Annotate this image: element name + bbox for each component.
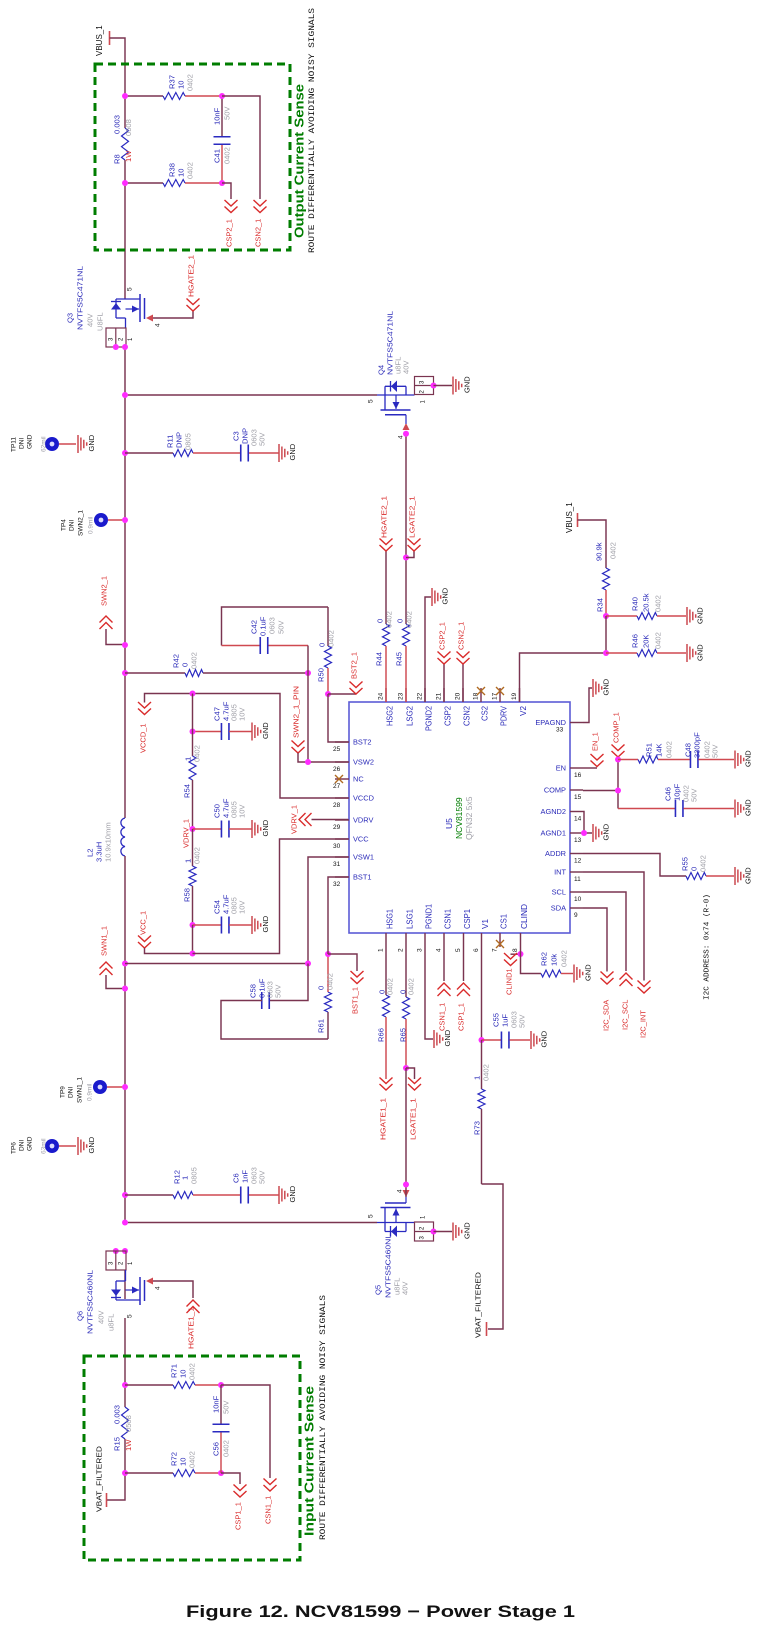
wire V1 [481,947,483,1040]
svg-text:R65: R65 [399,1028,408,1042]
svg-text:Q6: Q6 [76,1311,85,1321]
resistor R61 [317,954,335,1039]
svg-text:4: 4 [154,323,161,327]
svg-text:R66: R66 [377,1028,386,1042]
svg-text:R46: R46 [631,634,640,648]
net CSN1_1 (input) [221,1385,277,1524]
node [218,1382,224,1388]
wire [249,452,279,454]
svg-text:DNI: DNI [68,520,75,531]
svg-text:I2C_SDA: I2C_SDA [602,1000,611,1031]
wire SWN1 [125,963,308,965]
ground [279,1185,297,1204]
ground [252,915,270,934]
ground [453,1222,472,1241]
svg-text:C46: C46 [664,787,673,801]
svg-text:19: 19 [511,692,518,700]
wire VCC pin [193,839,350,954]
svg-text:SWN2_1: SWN2_1 [77,510,84,536]
svg-text:C56: C56 [212,1442,221,1456]
net I2C_SCL [583,892,633,1030]
node VBUS_1 (top) [95,25,110,56]
svg-text:29: 29 [333,824,341,831]
svg-text:0: 0 [317,986,326,990]
pin 13 AGND1 [541,829,583,845]
svg-text:Q5: Q5 [374,1285,383,1295]
pin 1 HSG1 [377,909,394,952]
ground [593,823,611,842]
testpoint TP6 [10,1136,76,1154]
svg-text:I2C_INT: I2C_INT [639,1010,648,1038]
net CSP2_1 [222,183,238,247]
svg-text:R51: R51 [645,743,654,757]
transistor Q5 [367,1189,414,1298]
node [122,344,128,350]
svg-text:ADDR: ADDR [545,849,566,858]
pin 6 V1 [473,919,490,952]
ground [687,607,705,625]
svg-text:VCC: VCC [353,835,369,844]
svg-text:INT: INT [554,868,566,877]
node [113,1248,119,1254]
svg-text:CSN1_1: CSN1_1 [438,1003,447,1031]
node [190,691,196,697]
node [603,613,609,619]
svg-text:TP11: TP11 [10,437,17,452]
svg-text:9: 9 [574,912,578,919]
ic U5 body [349,702,570,933]
node [122,961,128,967]
wire ADDR [583,854,686,877]
svg-text:C55: C55 [492,1013,501,1027]
svg-text:VCC_1: VCC_1 [139,911,148,935]
ground [735,750,753,769]
wire [125,452,173,454]
svg-text:CSP1_1: CSP1_1 [234,1502,243,1530]
svg-text:31: 31 [333,861,341,868]
pin 3 PGND1 [416,904,433,952]
svg-text:SWN1_1: SWN1_1 [100,926,109,956]
caption [186,1602,575,1621]
svg-text:I2C_SCL: I2C_SCL [621,1000,630,1030]
pin 20 CSN2 [454,688,471,726]
svg-text:R55: R55 [681,857,690,871]
net LGATE1_1 [406,1068,421,1140]
svg-text:3: 3 [109,1261,115,1265]
node [431,1229,437,1235]
svg-text:16: 16 [574,772,582,779]
svg-text:R45: R45 [395,652,404,666]
net CSN2_1 [222,96,267,247]
resistor R42 [172,652,203,676]
svg-text:25: 25 [333,746,341,753]
ground [574,964,593,983]
pin box Q5 [415,1215,434,1241]
svg-text:10: 10 [179,1370,188,1378]
node [431,383,437,389]
svg-text:10nF: 10nF [213,107,222,125]
svg-text:0402: 0402 [188,1363,197,1380]
net VCC_1 [138,911,193,954]
node [603,650,609,656]
wire [434,385,453,387]
svg-text:90.9k: 90.9k [595,542,604,561]
svg-text:HSG1: HSG1 [386,909,395,929]
svg-text:5: 5 [367,1214,374,1218]
svg-text:0508: 0508 [124,119,133,136]
svg-text:50V: 50V [518,1014,527,1028]
testpoint TP11 [10,434,76,452]
ground [593,678,611,697]
pin 15 COMP [544,786,583,802]
node [403,431,409,437]
svg-text:CSN2_1: CSN2_1 [254,219,263,247]
svg-text:EN: EN [556,764,566,773]
svg-text:PGND1: PGND1 [425,904,434,929]
wire [578,520,607,568]
svg-text:0402: 0402 [186,162,195,179]
svg-text:50V: 50V [690,788,699,802]
svg-text:R37: R37 [168,75,177,89]
svg-text:R40: R40 [631,597,640,611]
ground [279,443,297,462]
wire PGND1 [425,947,433,1039]
svg-text:I2C ADDRESS: 0x74 (R-0): I2C ADDRESS: 0x74 (R-0) [704,894,712,1000]
svg-text:1: 1 [421,400,427,404]
ground [687,644,705,662]
svg-text:1: 1 [184,757,193,761]
node [615,757,621,763]
svg-text:CSP2_1: CSP2_1 [438,622,447,650]
pin 16 EN [556,764,583,780]
net SWN2_1 [100,576,126,645]
net CSN2_1 (pin) [457,622,470,702]
resistor R51 [618,741,691,763]
node [615,788,621,794]
svg-text:1: 1 [181,1176,190,1180]
inductor L2 [86,818,125,862]
resistor R71 [170,1363,197,1388]
net CSP1_1 (pin) [457,947,470,1031]
pin box Q6 [106,1251,134,1270]
wire [124,1270,126,1299]
net I2C_INT [583,872,651,1038]
resistor R11 [166,432,193,457]
wire COMP [583,757,618,809]
no-connect X CS1 [496,940,504,948]
node [122,1220,128,1226]
svg-text:8: 8 [512,948,519,952]
svg-text:R54: R54 [183,784,192,798]
svg-text:0: 0 [396,619,405,623]
svg-text:0: 0 [690,867,699,871]
pin 32 BST1 [333,873,371,889]
wire [193,694,350,799]
resistor R37 [163,74,195,99]
resistor R66 [377,947,395,1079]
resistor R73 [473,1040,491,1184]
svg-text:NVTFS5C460NL: NVTFS5C460NL [86,1270,95,1334]
pin 21 CSP2 [435,688,452,726]
wire [125,1472,221,1474]
svg-text:DNI: DNI [18,1140,25,1151]
capacitor C3 [232,428,267,462]
svg-text:R50: R50 [317,668,326,682]
ground [735,867,753,885]
pin 12 ADDR [545,849,583,865]
wire [193,452,240,454]
wire [124,856,126,1223]
svg-text:0402: 0402 [654,632,663,649]
svg-text:SWN2_1: SWN2_1 [100,576,109,606]
svg-text:VBAT_FILTERED: VBAT_FILTERED [474,1271,483,1338]
svg-text:10: 10 [177,81,186,89]
svg-text:VSW1: VSW1 [353,853,374,862]
svg-text:TP6: TP6 [10,1142,17,1154]
svg-text:COMP: COMP [544,786,566,795]
svg-text:CSN1_1: CSN1_1 [264,1496,273,1524]
ground [531,1030,549,1049]
svg-text:0402: 0402 [482,1064,491,1081]
label Output Current Sense [293,84,307,238]
ground [252,819,270,838]
net I2C_SDA [583,908,614,1031]
svg-text:ROUTE DIFFERENTIALLY AVOIDING: ROUTE DIFFERENTIALLY AVOIDING NOISY SIGN… [308,8,317,253]
svg-text:27: 27 [333,783,341,790]
net CSP2_1 (pin) [438,622,451,702]
net COMP_1 [612,712,625,757]
svg-text:0402: 0402 [560,950,569,967]
node [518,951,524,957]
wire [434,1231,453,1233]
pin 27 NC [333,775,364,791]
svg-text:SWN1_1: SWN1_1 [76,1077,83,1103]
node [479,1037,485,1043]
pin box Q3 [106,328,134,347]
wire EPAGND [583,688,592,723]
capacitor C56 [212,1385,231,1473]
capacitor C41 [213,96,232,183]
svg-text:R72: R72 [170,1452,179,1466]
svg-text:20K: 20K [642,634,651,648]
ground [78,434,96,453]
svg-text:R62: R62 [540,952,549,966]
svg-text:0402: 0402 [223,147,232,164]
svg-text:0402: 0402 [699,855,708,872]
pin 25 BST2 [333,738,371,754]
node [581,830,587,836]
capacitor C55 [482,1011,531,1048]
svg-text:0402: 0402 [385,611,394,628]
svg-text:GND: GND [584,964,593,981]
svg-text:VCCD_1: VCCD_1 [139,723,148,753]
svg-text:CSN2: CSN2 [463,706,472,726]
svg-text:V1: V1 [481,919,490,929]
pin 22 PGND2 [416,688,433,731]
svg-text:LGATE2_1: LGATE2_1 [408,496,417,538]
wire [192,925,194,954]
svg-text:0402: 0402 [665,741,674,758]
svg-text:HGATE2_1: HGATE2_1 [187,255,196,297]
no-connect X CS2 [477,687,485,695]
svg-text:4: 4 [397,435,404,439]
svg-text:NVTFS5C460NL: NVTFS5C460NL [384,1234,393,1298]
svg-text:33: 33 [556,727,564,734]
wire [307,673,309,762]
svg-text:24: 24 [377,692,384,700]
capacitor C42 [222,607,329,654]
pin 10 SCL [552,888,583,904]
svg-text:0402: 0402 [609,542,618,559]
node [219,93,225,99]
pin 7 CS1 [491,914,508,952]
svg-text:C41: C41 [213,149,222,163]
svg-text:CSP2: CSP2 [444,706,453,726]
svg-text:R61: R61 [317,1019,326,1033]
svg-text:C47: C47 [213,707,222,721]
capacitor C54 [193,894,253,933]
svg-text:COMP_1: COMP_1 [612,712,621,743]
svg-text:0402: 0402 [405,611,414,628]
pin 31 VSW1 [333,853,374,869]
svg-text:R44: R44 [375,652,384,666]
wire [125,95,222,97]
svg-text:2: 2 [119,1261,125,1265]
svg-text:40V: 40V [402,360,411,374]
pin 28 VCCD [333,794,374,810]
svg-text:ROUTE DIFFERENTIALLY AVOIDING: ROUTE DIFFERENTIALLY AVOIDING NOISY SIGN… [319,1295,328,1540]
svg-text:0.9mil: 0.9mil [87,516,94,534]
svg-text:4: 4 [396,1189,403,1193]
wire Q4 gate [405,434,407,558]
svg-text:0805: 0805 [184,433,193,450]
svg-text:0402: 0402 [188,1451,197,1468]
svg-text:U5: U5 [444,818,454,829]
svg-text:0402: 0402 [327,630,336,647]
svg-text:u8FL: u8FL [107,1314,116,1331]
svg-text:GND: GND [441,587,450,604]
svg-text:BST2_1: BST2_1 [350,652,359,679]
no-connect X PDRV [496,687,504,695]
svg-text:R71: R71 [170,1364,179,1378]
svg-text:HGATE2_1: HGATE2_1 [380,496,389,538]
svg-text:R38: R38 [168,163,177,177]
svg-text:10: 10 [179,1458,188,1466]
node [325,691,331,697]
node VBAT_FILTERED (bottom left) [95,1445,107,1512]
wire VSW1 pin [308,857,349,964]
svg-text:SWN2_1_PIN: SWN2_1_PIN [292,686,301,738]
pin 8 CLIND [512,904,529,952]
svg-text:21: 21 [435,692,442,700]
svg-text:Input Current Sense: Input Current Sense [303,1386,317,1536]
svg-text:DNP: DNP [241,428,250,444]
svg-text:VCCD: VCCD [353,794,374,803]
svg-text:14: 14 [574,816,582,823]
net HGATE2_1 (to HSG2) [380,496,393,551]
resistor R62 [521,947,574,977]
node [122,1192,128,1198]
net VCCD_1 [138,694,193,754]
pin 24 HSG2 [377,688,394,726]
capacitor C58 [221,964,328,1040]
svg-text:50V: 50V [274,984,283,998]
node [190,729,196,735]
svg-text:GND: GND [87,1136,96,1153]
svg-text:62mil: 62mil [40,436,47,452]
svg-text:R15: R15 [113,1437,122,1451]
pin 5 CSP1 [455,909,472,952]
svg-text:R42: R42 [172,654,181,668]
svg-text:BST1: BST1 [353,873,371,882]
node [190,951,196,957]
resistor R45 [395,558,414,703]
output current sense box [95,64,290,250]
node [190,922,196,928]
net HGATE2_1 (Q3 gate) [153,255,200,318]
node [305,670,311,676]
svg-text:DNI: DNI [67,1087,74,1098]
svg-text:QFN32 5x5: QFN32 5x5 [464,796,474,840]
net CSP1_1 [221,1473,247,1530]
svg-text:0402: 0402 [193,745,202,762]
svg-text:CLIND: CLIND [520,904,529,929]
svg-text:GND: GND [744,750,753,767]
svg-text:VSW2: VSW2 [353,758,374,767]
svg-text:10k: 10k [550,954,559,966]
svg-text:VDRV_1: VDRV_1 [290,805,299,834]
pin 29 VDRV [333,816,373,832]
svg-text:1nF: 1nF [241,1170,250,1183]
wire V2 [520,653,607,702]
net SWN1_1 [100,926,126,989]
capacitor C6 [232,1167,267,1203]
svg-text:GND: GND [463,376,472,393]
svg-text:DNI: DNI [18,438,25,449]
input current sense box [84,1356,300,1560]
svg-text:R8: R8 [113,154,122,164]
svg-text:10: 10 [574,896,582,903]
svg-text:4: 4 [435,948,442,952]
svg-text:HGATE1_1: HGATE1_1 [187,1307,196,1349]
svg-text:3: 3 [416,948,423,952]
capacitor C48 [684,732,734,768]
wire VBAT [482,1184,504,1329]
node [190,826,196,832]
net SWN2_1_PIN [292,686,350,762]
svg-text:40V: 40V [97,1310,106,1324]
svg-text:0402: 0402 [190,652,199,669]
svg-text:C54: C54 [213,900,222,914]
pin 11 INT [554,868,583,884]
svg-text:10V: 10V [238,707,247,721]
note ROUTE DIFFERENTIALLY (top) [308,8,317,253]
svg-text:0402: 0402 [326,973,335,990]
svg-text:CSP1_1: CSP1_1 [457,1003,466,1031]
svg-text:GND: GND [288,443,297,460]
svg-text:10V: 10V [238,804,247,818]
svg-text:1: 1 [184,859,193,863]
svg-text:C48: C48 [684,743,693,757]
ground [252,722,270,741]
svg-text:5: 5 [126,1314,133,1318]
svg-text:50V: 50V [258,1170,267,1184]
svg-text:C3: C3 [232,431,241,441]
resistor R44 [375,551,394,702]
node [305,961,311,967]
svg-text:PDRV: PDRV [500,706,509,726]
wire AGND tie [583,812,592,834]
